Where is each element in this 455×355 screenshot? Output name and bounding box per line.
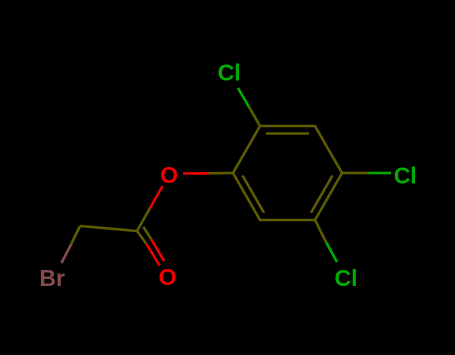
bond C7-C8: [80, 226, 137, 231]
bond O(ester)-C7 olive half: [137, 209, 150, 232]
bond C4-Cl(right) olive half: [342, 172, 369, 175]
bond C8-Br olive half: [71, 226, 80, 245]
bond C1-O(ester) red half: [183, 172, 209, 175]
bond C1-O(ester) olive half: [209, 172, 234, 175]
bond C5-Cl(bottom) olive half: [315, 220, 326, 242]
bond C5-Cl(bottom) green half: [326, 242, 337, 262]
ring inner double bond C2-C3: [266, 132, 309, 135]
svg-text:Cl: Cl: [218, 60, 241, 86]
bond O(ester)-C7 red half: [150, 186, 163, 209]
bond C4-Cl(right) green half: [369, 172, 392, 175]
ring inner double bond C6-C1: [243, 176, 265, 213]
carbonyl C7=O line2 red half: [152, 240, 165, 262]
carbonyl C7=O line1 red half: [147, 244, 160, 266]
bond C2-Cl(top) olive half: [249, 107, 260, 126]
ring inner double bond C4-C5: [311, 176, 333, 213]
bond C2-Cl(top) green half: [238, 88, 249, 107]
carbonyl C7=O line2 olive half: [143, 227, 151, 240]
svg-text:Cl: Cl: [394, 162, 417, 188]
bond C8-Br maroon half: [62, 245, 72, 264]
svg-text:O: O: [159, 264, 177, 290]
carbonyl C7=O line1 olive half: [137, 231, 147, 244]
benzene ring C1-C6: [233, 126, 342, 220]
svg-text:O: O: [160, 162, 178, 188]
svg-text:Cl: Cl: [335, 265, 358, 291]
svg-text:Br: Br: [39, 265, 65, 291]
